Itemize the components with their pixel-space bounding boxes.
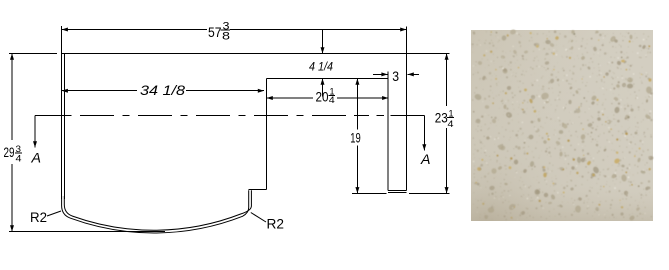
arrowhead 57 3/8 left bbox=[62, 28, 68, 32]
section line A left vertical bbox=[34, 116, 36, 148]
section line A right vertical bbox=[423, 116, 425, 151]
svg-text:8: 8 bbox=[222, 31, 230, 43]
svg-text:4: 4 bbox=[16, 154, 22, 165]
front edge inner curve bbox=[64, 190, 251, 230]
dimension 4 1/4 upper witness bbox=[322, 30, 324, 54]
svg-text:29: 29 bbox=[4, 144, 15, 160]
cutout left edge bbox=[266, 79, 268, 190]
section line A left horizontal bbox=[35, 115, 72, 117]
extension line 29 3/4 top bbox=[9, 53, 57, 55]
extension line 29 3/4 bottom bbox=[9, 231, 165, 233]
svg-text:4: 4 bbox=[329, 95, 335, 106]
arrowhead 57 3/8 right bbox=[400, 28, 406, 32]
witness line right top bbox=[405, 27, 407, 54]
R2 right leader bbox=[251, 213, 266, 223]
svg-text:3: 3 bbox=[392, 68, 399, 84]
fraction 3/8 bar bbox=[221, 29, 231, 31]
witness line left top bbox=[61, 26, 63, 54]
fraction 1/4 bar (20) bbox=[328, 95, 335, 97]
material swatch top-left shading bbox=[471, 30, 653, 221]
R2 left leader bbox=[47, 211, 61, 216]
arrowhead section A right bbox=[422, 144, 426, 150]
top edge of countertop bbox=[61, 53, 449, 55]
left edge outer line bbox=[61, 54, 63, 200]
dimension 3 lines bbox=[373, 73, 419, 75]
fraction 1/4 bar (23) bbox=[447, 116, 454, 118]
material swatch soft speckles bbox=[472, 29, 653, 221]
dimension 57 3/8 line bbox=[62, 29, 407, 31]
svg-text:34 1/8: 34 1/8 bbox=[140, 82, 185, 98]
arrowhead 34 1/8 left bbox=[62, 89, 68, 93]
fraction 3/4 bar (29) bbox=[15, 152, 22, 154]
material swatch base bbox=[471, 30, 653, 221]
left edge inner line bbox=[63, 54, 65, 200]
arrowhead 23 1/4 top bbox=[445, 54, 449, 60]
dimension 4 1/4 lower witness bbox=[322, 79, 324, 97]
front edge outer curve bbox=[62, 190, 249, 233]
svg-text:R2: R2 bbox=[30, 209, 47, 225]
material swatch fine speckles bbox=[472, 31, 653, 221]
svg-text:A: A bbox=[30, 150, 41, 166]
dimension 19 line bbox=[356, 79, 358, 194]
dimension 23 1/4 line bbox=[446, 54, 448, 194]
material swatch bottom shading bbox=[471, 30, 653, 221]
arrowhead 29 3/4 top bbox=[10, 54, 14, 60]
svg-text:57: 57 bbox=[208, 24, 222, 40]
svg-text:R2: R2 bbox=[267, 216, 285, 232]
arrowhead 4 1/4 down bbox=[321, 47, 325, 53]
arrowhead 23 1/4 bottom bbox=[445, 187, 449, 193]
cutout top edge bbox=[267, 78, 388, 80]
arrowhead 3 right-part bbox=[408, 72, 414, 76]
centerline dashed bbox=[80, 115, 424, 117]
svg-text:19: 19 bbox=[350, 130, 361, 146]
part right edge bbox=[405, 54, 407, 191]
step horizontal line bbox=[249, 189, 267, 191]
svg-text:A: A bbox=[420, 151, 431, 167]
arrowhead 19 top bbox=[355, 79, 359, 85]
arrowhead 34 1/8 right bbox=[258, 89, 264, 93]
arrowhead 3 left-part bbox=[381, 72, 387, 76]
arrowhead 20 1/4 right bbox=[382, 96, 388, 100]
svg-text:23: 23 bbox=[435, 110, 448, 126]
extension line at leg bottom bbox=[352, 192, 449, 194]
svg-text:20: 20 bbox=[316, 88, 329, 104]
material swatch corner shading bbox=[471, 30, 653, 221]
svg-text:4: 4 bbox=[448, 119, 454, 130]
arrowhead section A left bbox=[33, 141, 37, 147]
arrowhead 19 bottom bbox=[355, 187, 359, 193]
arrowhead 20 1/4 left bbox=[267, 96, 273, 100]
leg bottom double line bbox=[388, 191, 406, 193]
dimension 29 3/4 line bbox=[11, 54, 13, 232]
svg-text:4 1/4: 4 1/4 bbox=[309, 62, 333, 74]
dimension 34 1/8 line bbox=[62, 90, 264, 92]
arrowhead 4 1/4 up bbox=[321, 79, 325, 85]
dimension 20 1/4 line bbox=[267, 97, 389, 99]
cutout right edge with witness for 3 bbox=[387, 72, 389, 191]
arrowhead 29 3/4 bottom bbox=[10, 225, 14, 231]
